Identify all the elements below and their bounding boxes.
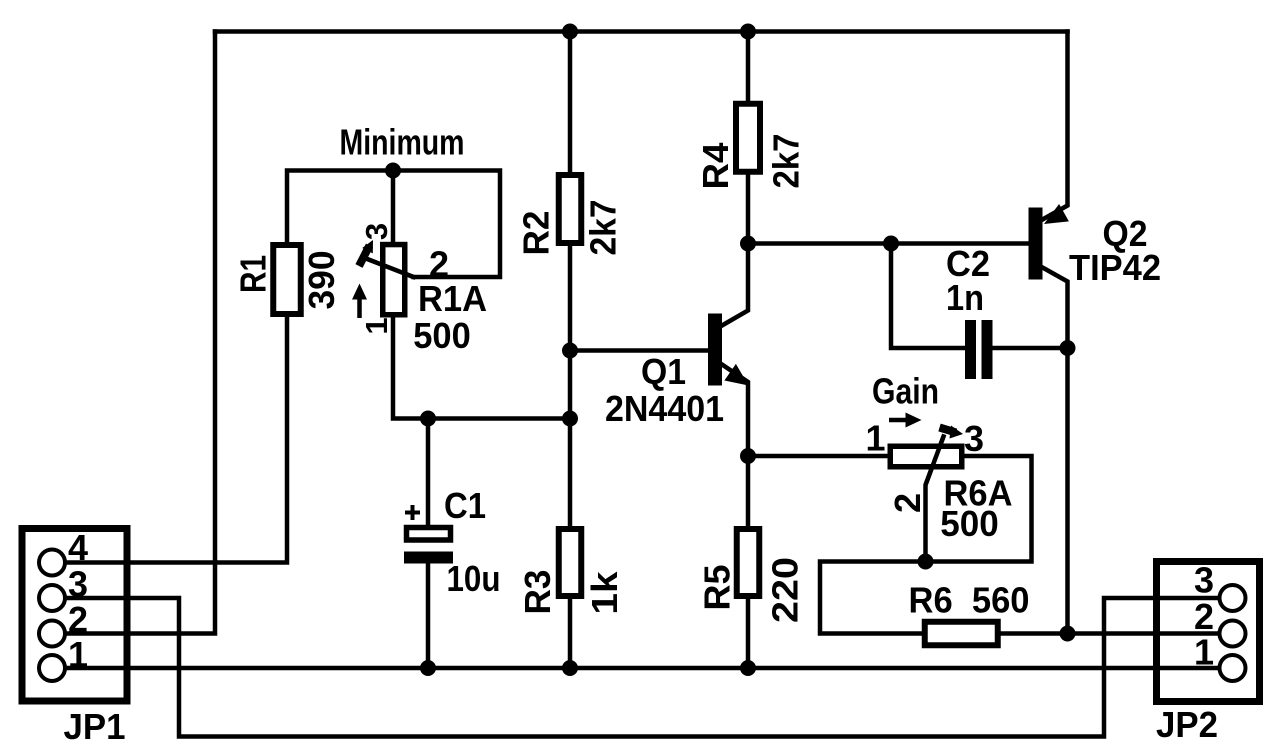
svg-text:Gain: Gain [872, 371, 939, 412]
wire C2 right [993, 346, 1068, 351]
capacitor C2 plates [965, 320, 976, 379]
wire R6A to R6 [820, 562, 926, 634]
svg-text:500: 500 [940, 503, 999, 544]
C1 plus sign [405, 505, 420, 520]
wire R5 column [746, 456, 751, 668]
svg-text:R5: R5 [697, 565, 738, 611]
capacitor C1 positive plate [407, 528, 451, 541]
transistor Q1 base bar [708, 314, 722, 386]
svg-text:1: 1 [1194, 632, 1214, 673]
resistor R1A body [383, 245, 405, 315]
connector JP2 box [1157, 562, 1260, 702]
svg-text:2: 2 [429, 244, 449, 285]
svg-text:10u: 10u [447, 558, 501, 599]
svg-text:Minimum: Minimum [340, 122, 465, 163]
svg-text:2k7: 2k7 [766, 134, 807, 189]
svg-text:2: 2 [887, 493, 928, 513]
R1A wiper arrow through body [359, 240, 414, 277]
R1A adjust up-arrow [352, 284, 367, 319]
wire R6 to JP2 pin2 [1000, 631, 1233, 636]
wire top rail [215, 29, 1068, 34]
svg-text:3: 3 [964, 418, 984, 459]
wire R1A pin3 [391, 171, 396, 243]
svg-text:500: 500 [413, 315, 471, 356]
svg-text:1n: 1n [946, 277, 984, 318]
resistor R1 [273, 245, 301, 314]
svg-text:R3: R3 [517, 570, 558, 615]
wire Q1 base [570, 348, 708, 353]
wire Q2 emitter to rail [1043, 32, 1068, 220]
svg-text:3: 3 [1194, 560, 1214, 601]
svg-text:R2: R2 [516, 211, 557, 256]
svg-text:JP2: JP2 [1156, 704, 1218, 745]
JP2 pin circles [1220, 585, 1246, 681]
wire R6A wiper pin2 [926, 437, 944, 562]
transistor Q2 base bar [1029, 208, 1043, 280]
connector JP1 box [22, 529, 127, 702]
Gain adjust right-arrow [889, 413, 922, 428]
wire JP1 pin3 bottom route to JP2 pin3 [52, 598, 1233, 737]
wire R1A wiper shaft [366, 259, 414, 278]
svg-text:R1: R1 [233, 255, 274, 293]
svg-text:1: 1 [359, 317, 394, 334]
svg-text:2k7: 2k7 [583, 200, 624, 256]
capacitor C1 negative plate [404, 552, 453, 564]
svg-text:220: 220 [765, 557, 806, 623]
wire Q2 collector down [1043, 268, 1068, 634]
svg-text:4: 4 [68, 527, 88, 568]
wire R1 top to minimum node [287, 171, 393, 243]
transistor Q2 emitter arrow [1044, 204, 1069, 224]
wire R2-R3 column [568, 32, 573, 669]
svg-text:1: 1 [68, 634, 88, 675]
svg-text:C1: C1 [444, 485, 486, 526]
svg-text:R4: R4 [695, 143, 736, 190]
wire R4 node to Q2 base [748, 241, 1029, 246]
svg-text:JP1: JP1 [64, 706, 126, 747]
wire R6A pin1 [748, 454, 888, 459]
transistor Q1 emitter arrow [724, 364, 748, 386]
svg-text:3: 3 [359, 223, 394, 240]
wire C2 left and riser [891, 244, 965, 349]
svg-text:TIP42: TIP42 [1069, 247, 1161, 288]
resistor R2 [559, 175, 582, 243]
wire R1A pin2 loop [393, 171, 500, 278]
R6A wiper arrow through body [926, 426, 964, 486]
resistor R5 [737, 529, 760, 596]
svg-text:R6 560: R6 560 [909, 580, 1030, 621]
wire Q1 collector [722, 244, 748, 326]
wire C1 top branch [393, 317, 570, 419]
resistor R6 [925, 622, 998, 646]
resistor R6A body [890, 446, 962, 467]
resistor R4 [736, 104, 760, 172]
svg-text:Q1: Q1 [641, 351, 686, 392]
wire R6A pin3 loop [926, 456, 1032, 562]
JP1 pin circles [39, 550, 65, 682]
wire ground JP1 pin1 to JP2 pin1 [52, 666, 1233, 671]
resistor R3 [559, 529, 582, 596]
wire left drop from top rail to JP1 pin2 [52, 32, 215, 634]
svg-text:2N4401: 2N4401 [605, 388, 724, 429]
wire C1 leads [426, 419, 431, 526]
wire Q1 emitter [722, 365, 748, 457]
wire R4 column [746, 32, 751, 244]
svg-text:390: 390 [301, 251, 342, 310]
svg-text:1: 1 [865, 418, 885, 459]
wire R1 bottom to JP1 pin4 [52, 317, 287, 563]
svg-text:1k: 1k [584, 570, 625, 614]
